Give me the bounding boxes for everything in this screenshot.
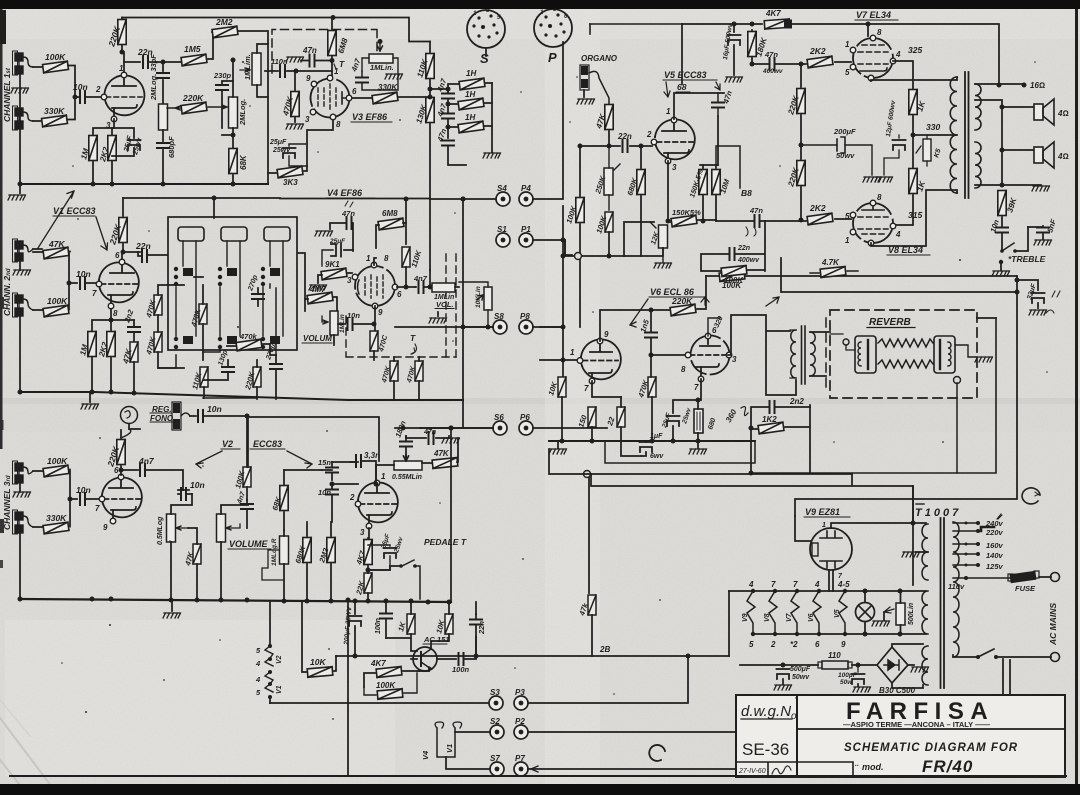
capacitor 500uF 50wv <box>777 669 790 679</box>
resistor 470K V6 grid leak <box>648 377 656 397</box>
wire V7 screen <box>893 61 913 92</box>
svg-text:9: 9 <box>841 640 846 649</box>
svg-text:AC 151: AC 151 <box>423 635 449 644</box>
output transformer primary winding <box>950 77 957 193</box>
capacitor 1uF 6wv <box>640 442 653 452</box>
pot 1MLin vol <box>330 311 338 335</box>
dashed reverb box <box>830 310 977 398</box>
svg-text:125v: 125v <box>986 562 1004 571</box>
resistor 470K trem b <box>390 361 398 381</box>
wire V8 plate to primary bottom <box>871 190 957 246</box>
svg-text:2B: 2B <box>599 645 610 654</box>
svg-text:4: 4 <box>895 50 901 59</box>
svg-text:B8: B8 <box>741 188 752 198</box>
svg-text:*2: *2 <box>790 640 798 649</box>
svg-text:27-IV-60: 27-IV-60 <box>738 768 766 775</box>
svg-text:3K3: 3K3 <box>283 178 298 187</box>
svg-text:220v: 220v <box>985 528 1004 537</box>
V1a internals: plate, grid, cathode <box>112 76 136 86</box>
capacitor 47n 400wv <box>770 58 775 70</box>
svg-text:50wv: 50wv <box>836 151 855 160</box>
wire 16 ohm tap <box>975 83 1024 85</box>
cathode box <box>605 441 755 463</box>
DC row <box>740 664 818 666</box>
svg-text:VOLUME: VOLUME <box>229 539 268 549</box>
svg-text:7: 7 <box>584 384 589 393</box>
wire P7 long <box>528 660 1010 769</box>
title block divider horizontal <box>797 728 1065 730</box>
wire decoupling chain <box>429 42 431 200</box>
capacitor 12uF 600wv <box>898 135 900 138</box>
svg-text:330K: 330K <box>44 106 65 116</box>
wire P1 to organo node <box>533 240 572 255</box>
capacitor 47n V8 <box>755 215 760 227</box>
capacitor 4n7 mix <box>246 500 248 528</box>
wire B+ row extension <box>280 198 430 200</box>
HV center tap ground <box>916 551 928 553</box>
heater V8 zigzag <box>769 591 777 634</box>
svg-text:100n: 100n <box>452 665 470 674</box>
svg-text:V3 EF86: V3 EF86 <box>352 112 388 122</box>
svg-text:T: T <box>339 59 345 69</box>
bottom frame line <box>10 775 1066 777</box>
choke 1H b <box>458 98 484 110</box>
resistor 2K2 V8 <box>807 213 833 225</box>
heater V9 zigzag <box>751 589 847 636</box>
resistor 330K <box>42 115 68 127</box>
wire 2M2 right vertical <box>238 31 268 184</box>
capacitor 22n ch2 <box>142 250 147 262</box>
pentode V3 envelope <box>311 79 350 118</box>
heater rail bottom <box>752 633 926 635</box>
svg-text:V5: V5 <box>834 609 841 618</box>
wire speaker feed <box>975 100 1036 185</box>
pot 0.5MLog 1 <box>167 514 176 542</box>
svg-text:4: 4 <box>748 580 754 589</box>
wires tone box to bus <box>158 284 276 398</box>
wire jack grounds <box>19 262 21 392</box>
mini row 180n/47n ground <box>406 436 458 461</box>
capacitor 5nF treble <box>1028 226 1043 227</box>
svg-text:100K: 100K <box>47 296 68 306</box>
svg-text:25μF: 25μF <box>269 139 287 146</box>
bus riser to S6 row <box>450 428 452 602</box>
svg-text:9: 9 <box>604 330 609 339</box>
wire V6a plate up <box>600 310 669 341</box>
wire V7 grid row <box>752 62 851 64</box>
resistor 100K b+ <box>719 271 745 282</box>
wires vibrato top <box>248 416 379 467</box>
DIN socket P <box>534 9 572 47</box>
svg-text:50w: 50w <box>840 679 853 686</box>
arrow V2 left <box>196 451 222 468</box>
voltage selector link <box>981 527 994 531</box>
svg-text:3: 3 <box>347 276 352 285</box>
pot 250K <box>604 168 613 195</box>
resistor 4K7 osc <box>376 667 402 678</box>
capacitor 25uF v2b <box>368 545 390 570</box>
svg-text:100μF: 100μF <box>838 672 858 679</box>
svg-text:22n: 22n <box>135 241 151 251</box>
ground jack shield <box>11 88 29 93</box>
capacitor 100uF 50wv <box>857 665 859 672</box>
punch hole bottom <box>649 745 665 761</box>
T1007 core <box>941 518 945 688</box>
svg-text:4Ω: 4Ω <box>1057 109 1069 118</box>
svg-text:500μF: 500μF <box>790 666 811 673</box>
V4 internals <box>365 275 383 298</box>
svg-text:4n7: 4n7 <box>138 456 155 466</box>
svg-text:FR/40: FR/40 <box>922 757 973 776</box>
arrow to V1b <box>96 217 108 250</box>
svg-text:P: P <box>548 50 557 65</box>
wire grid node <box>296 71 332 77</box>
svg-text:1: 1 <box>845 40 850 49</box>
capacitor 10n ch2 out <box>338 323 345 325</box>
svg-text:10n: 10n <box>207 404 222 414</box>
main ground bus <box>20 599 451 602</box>
svg-text:1: 1 <box>666 107 671 116</box>
svg-text:2: 2 <box>646 130 652 139</box>
title block outer box <box>736 695 1065 777</box>
resistor 680K <box>303 538 311 563</box>
svg-text:9: 9 <box>378 308 383 317</box>
svg-text:1: 1 <box>381 472 386 481</box>
heater rail top <box>729 590 926 592</box>
pot 1MLin VOL <box>432 283 455 292</box>
svg-text:22n: 22n <box>477 621 486 635</box>
svg-text:110v: 110v <box>948 582 965 591</box>
ground speakers <box>1002 184 1041 186</box>
capacitor 100n out <box>437 658 456 660</box>
svg-text:8: 8 <box>877 193 882 202</box>
resistor 220K bias upper <box>797 89 805 114</box>
resistor 220K plate V1b <box>119 218 127 243</box>
svg-text:47n: 47n <box>749 206 763 215</box>
capacitor 2n2 reverb <box>751 407 810 473</box>
wire reverb output <box>955 345 976 357</box>
capacitor 10n ch3 <box>80 493 85 505</box>
capacitor 47n ch2 <box>330 223 345 229</box>
resistor 110K upper <box>426 54 434 79</box>
resistor 100K left <box>576 198 584 223</box>
svg-text:5: 5 <box>845 212 850 221</box>
svg-text:2K2: 2K2 <box>809 46 826 56</box>
capacitor 25uF cathode <box>289 144 307 166</box>
left riser to heater rail <box>728 591 730 656</box>
resistor 330K anode <box>372 92 398 104</box>
capacitor 15n <box>322 462 332 480</box>
wire feedback row y292 <box>781 258 1017 292</box>
switch3 contacts <box>263 241 283 336</box>
switch1 contacts <box>176 241 196 336</box>
capacitor 25uF cathode bypass <box>112 128 134 156</box>
pot 500Lin hum <box>896 603 905 625</box>
svg-text:7: 7 <box>92 289 97 298</box>
spring 1 <box>878 339 933 347</box>
primary taps <box>953 523 1011 578</box>
svg-text:47n: 47n <box>302 46 317 55</box>
svg-text:..: .. <box>855 761 859 768</box>
pentode V4 envelope <box>355 266 395 306</box>
ground stub on B+ row <box>999 260 1003 264</box>
jack J4 channel2 <box>13 293 34 317</box>
wire loop row3 <box>751 318 996 473</box>
svg-text:330K: 330K <box>378 83 398 92</box>
svg-text:V1: V1 <box>445 744 454 753</box>
wire 100K/330K to grid cap <box>33 66 79 122</box>
triode V5 envelope <box>655 119 695 159</box>
wire rectifier B+ <box>795 276 1017 516</box>
resistor 150K-5% <box>699 170 707 195</box>
resistor 1M ch2 <box>88 332 96 357</box>
tetrode V8 envelope <box>853 203 893 243</box>
triode V1b envelope <box>99 262 139 302</box>
resistor 4.7K b+ <box>820 267 846 278</box>
wire cap to grid pin2 <box>86 96 103 98</box>
resistor 10K link <box>302 601 306 672</box>
svg-text:150K5%: 150K5% <box>672 208 701 217</box>
svg-text:200μF: 200μF <box>833 127 856 136</box>
svg-text:3: 3 <box>305 115 310 124</box>
wires to grid cap ch3 <box>33 470 77 528</box>
wire V9 cathode to heater rail <box>829 570 833 591</box>
resistor 150K5% tail <box>671 215 697 227</box>
wire B+ rail ch2 <box>123 197 280 199</box>
svg-text:8: 8 <box>384 254 389 263</box>
svg-text:2: 2 <box>349 493 355 502</box>
svg-text:330: 330 <box>926 122 940 132</box>
svg-text:1: 1 <box>570 348 575 357</box>
wire pin9 down <box>374 306 376 330</box>
wire V9 left pin <box>795 516 810 541</box>
ground 47n <box>286 57 304 62</box>
svg-text:10n: 10n <box>73 82 88 92</box>
capacitor 22n <box>143 56 148 68</box>
svg-text:4.7K: 4.7K <box>821 258 840 267</box>
svg-text:4M7: 4M7 <box>309 285 326 294</box>
svg-text:2n2: 2n2 <box>789 397 804 406</box>
wire V4 plate <box>374 258 376 265</box>
svg-text:PEDALE T: PEDALE T <box>424 537 467 547</box>
resistor 47K <box>43 247 69 259</box>
wire 110K riser <box>405 199 407 244</box>
resistor 470K sw1 lower <box>154 332 162 352</box>
title block divider vertical <box>796 695 798 777</box>
svg-text:1H: 1H <box>466 69 476 78</box>
wire 2B line <box>336 655 729 657</box>
resistor 22 <box>617 407 625 427</box>
capacitor 25uF pentode <box>667 416 680 426</box>
resistor 100K osc <box>377 689 403 700</box>
resistor 1K2 <box>758 422 784 434</box>
capacitor 10n grid <box>80 91 85 103</box>
ground stubs <box>558 441 698 448</box>
pot 1MLog R <box>280 536 289 564</box>
pot wiper arrow <box>176 526 188 530</box>
feedback loop rectangle <box>624 222 663 256</box>
wire loop row2 <box>591 474 913 585</box>
wire reverb ground riser <box>977 317 996 319</box>
resistor 10K osc <box>445 614 453 634</box>
resistor 2M2 <box>327 538 335 563</box>
resistor 470K grid return <box>291 92 299 117</box>
heater V6 zigzag <box>813 591 821 634</box>
jack J2 channel1 input <box>13 106 34 130</box>
left edge scan marks <box>0 297 4 309</box>
center tap wire 330 <box>911 133 916 138</box>
resistor 100K ch3 <box>43 465 69 477</box>
svg-text:4-5: 4-5 <box>837 580 850 589</box>
resistor 4K7 rail <box>764 19 790 29</box>
wires to grid cap <box>33 249 77 310</box>
V6a internals <box>590 344 612 352</box>
svg-text:4Ω: 4Ω <box>1057 152 1069 161</box>
capacitor 16uF 500wv <box>733 24 735 32</box>
shielded pickup cap <box>173 403 180 429</box>
capacitor 33pF node vertical <box>162 62 164 104</box>
svg-text:4: 4 <box>814 580 820 589</box>
pot 1MLim <box>252 53 261 85</box>
svg-text:500Lin: 500Lin <box>908 603 915 625</box>
svg-text:22n: 22n <box>737 245 750 252</box>
wire B+ rail to V3 <box>331 15 336 20</box>
svg-text:3,3n: 3,3n <box>364 451 380 460</box>
resistor 220K plate V2a <box>117 440 125 465</box>
svg-text:15n: 15n <box>318 458 331 467</box>
svg-text:1: 1 <box>845 236 850 245</box>
ground filter <box>483 153 501 158</box>
svg-text:110: 110 <box>828 651 841 660</box>
svg-text:FUSE: FUSE <box>1015 584 1036 593</box>
wire plate to 4n7 <box>119 468 124 473</box>
svg-text:400wv: 400wv <box>762 68 783 75</box>
svg-text:50wv: 50wv <box>792 674 810 681</box>
V2a internals <box>109 478 133 488</box>
svg-text:10n: 10n <box>347 311 360 320</box>
resistor 180K <box>748 32 756 57</box>
svg-text:2K2: 2K2 <box>809 203 826 213</box>
svg-text:0.55MLin: 0.55MLin <box>392 474 422 481</box>
svg-text:6: 6 <box>115 251 120 260</box>
svg-text:220K: 220K <box>671 296 693 306</box>
rectifier V9 envelope <box>810 528 852 570</box>
svg-text:160v: 160v <box>986 541 1004 550</box>
svg-text:100K: 100K <box>45 52 66 62</box>
pot K5 <box>923 139 931 161</box>
svg-text:8: 8 <box>877 28 882 37</box>
ground bus channel 2 <box>20 392 463 400</box>
arrow V2 right <box>287 451 312 468</box>
svg-text:100K: 100K <box>47 456 68 466</box>
arrow reverb pointer <box>766 297 779 306</box>
resistor 1M grid leak <box>89 136 97 161</box>
wire organo hook to 47K <box>589 71 609 105</box>
wire 22n to tone network <box>150 61 181 63</box>
resistor 110K ch2 <box>402 247 410 267</box>
ground mid <box>437 312 439 316</box>
wire B+ feed row <box>706 275 1017 277</box>
svg-text:VOL.: VOL. <box>436 300 454 309</box>
svg-text:47K: 47K <box>433 449 450 458</box>
svg-text:7: 7 <box>694 383 699 392</box>
wire P4 to P socket <box>533 42 563 199</box>
wire P-line vertical <box>562 206 564 380</box>
bridge connections <box>892 644 923 688</box>
ground organo <box>583 90 585 97</box>
wire V7 plate to primary <box>871 77 957 81</box>
right border line <box>1075 9 1078 784</box>
svg-text:T: T <box>410 333 416 343</box>
cathode parts pentode <box>673 379 701 413</box>
svg-text:325: 325 <box>908 45 922 55</box>
resistor 470K sw2 <box>199 304 207 324</box>
wire from circled S down <box>121 429 131 438</box>
transformer core <box>802 326 806 384</box>
svg-text:3: 3 <box>732 355 737 364</box>
svg-text:V2: V2 <box>222 439 233 449</box>
svg-text:V2: V2 <box>276 655 283 664</box>
rocker switch 3 <box>264 227 290 241</box>
resistor 220K V6 <box>670 304 696 316</box>
svg-text:V1: V1 <box>276 685 283 694</box>
wire S4 feed <box>430 198 496 200</box>
arrow V5 left <box>664 82 670 97</box>
footswitch plug V4/V1 <box>435 722 462 728</box>
resistor 4K7 cath <box>364 540 372 565</box>
scribbles right <box>1046 291 1060 313</box>
T1007 anode winding <box>922 646 928 685</box>
resistor 100K mid <box>605 212 613 232</box>
scribble <box>345 201 353 207</box>
resistor 330K ch3 <box>43 522 69 534</box>
heater V5 zigzag <box>839 591 847 634</box>
capacitor 10n fono <box>190 415 196 417</box>
capacitor 47n <box>301 60 332 62</box>
wire B+ rail stub <box>590 23 682 25</box>
resistor 1K V7 screen <box>909 90 917 115</box>
wire P1 row with hop <box>565 240 574 256</box>
resistor 130K lower <box>426 98 434 123</box>
wire phase splitter to V8 row <box>716 219 851 221</box>
svg-text:4: 4 <box>255 659 261 668</box>
wire left 100K down to P8 row <box>579 260 581 327</box>
capacitor 10n treble <box>996 228 1008 233</box>
V5 internals <box>662 121 686 131</box>
svg-text:9: 9 <box>103 523 108 532</box>
svg-text:6: 6 <box>352 87 357 96</box>
input transducer <box>855 336 876 373</box>
capacitor 200uF 50wv <box>799 143 804 148</box>
reverb driver secondary <box>810 332 815 376</box>
svg-text:S: S <box>480 51 489 66</box>
resistor 47K ch2b <box>130 342 138 362</box>
resistor 470K ch2 out <box>370 331 378 351</box>
svg-text:47K: 47K <box>48 239 65 249</box>
wire S8 row left <box>395 326 493 328</box>
resistor 220K plate V1a <box>122 18 124 73</box>
svg-text:5: 5 <box>749 640 754 649</box>
capacitor 110n input <box>265 70 296 72</box>
svg-text:6wv: 6wv <box>650 453 664 460</box>
long vertical from V3 chain down <box>429 199 431 270</box>
wire V4 anode row <box>397 286 415 288</box>
svg-text:100n: 100n <box>375 618 382 634</box>
dashed screen box <box>272 30 377 74</box>
svg-text:REVERB: REVERB <box>869 317 911 328</box>
tone selector box <box>168 217 297 350</box>
resistor 10K in grid line <box>558 377 566 397</box>
